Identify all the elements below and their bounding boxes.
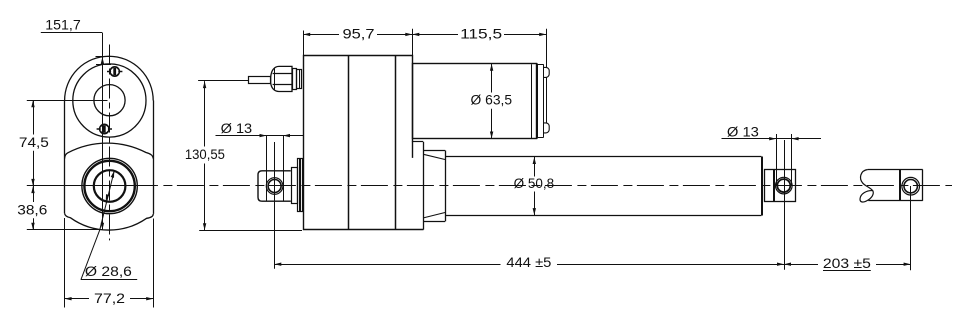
extended clevis block top edge <box>868 169 923 171</box>
svg-text:444 ±5: 444 ±5 <box>506 255 551 271</box>
rod clevis hole outer <box>776 177 793 194</box>
rear clevis hole centerline <box>274 142 276 269</box>
motor terminal bump bottom <box>544 123 550 133</box>
dim 151,7 top tick <box>96 56 113 58</box>
dim 115,5 arrow left <box>412 33 419 36</box>
dim 203 line <box>784 264 818 266</box>
motor body rectangle <box>413 64 537 139</box>
dim 203 arrow left <box>784 263 791 266</box>
dim 38,6 arrow top <box>31 186 34 193</box>
dim 74,5 line <box>33 100 35 134</box>
dim dia13 left ext2 <box>283 136 285 201</box>
end view: screw top <box>107 67 122 76</box>
housing body outline <box>304 56 424 230</box>
extended clevis right edge <box>922 170 924 201</box>
collar bottom chamfer <box>423 213 445 218</box>
housing internal line 2 <box>395 56 397 230</box>
dim 95,7 arrow right <box>405 33 412 36</box>
extended clevis divider thick line <box>899 170 901 201</box>
dim dia50,8 arrow top <box>533 157 536 164</box>
svg-text:Ø 28,6: Ø 28,6 <box>85 264 132 280</box>
dim 74,5 arrow top <box>31 100 34 107</box>
svg-text:151,7: 151,7 <box>45 18 81 34</box>
dim dia13 right ext2 <box>791 134 793 186</box>
rear clevis block <box>258 171 291 201</box>
gland nut facet top <box>273 73 292 75</box>
dim dia50,8 line <box>534 157 536 177</box>
dim 444 arrow right <box>777 263 784 266</box>
motor end cap outer line <box>546 77 548 123</box>
svg-text:Ø 63,5: Ø 63,5 <box>471 93 513 109</box>
dim dia13 left arrow2 <box>283 134 290 137</box>
motor end cap top edge <box>537 64 544 66</box>
dim 77,2 arrow left <box>65 297 72 300</box>
gland ring <box>297 70 302 89</box>
dim 74,5 arrow bottom <box>31 179 34 186</box>
dim 95,7 line <box>303 34 339 36</box>
end view: screw bottom <box>97 124 112 133</box>
svg-text:38,6: 38,6 <box>17 202 47 218</box>
rod clevis divider thick line <box>773 170 775 202</box>
motor end cap right edge <box>543 65 545 138</box>
dim 151,7 second tick <box>96 64 111 66</box>
dim 130,55 arrow top <box>203 81 206 88</box>
dim dia13 right line <box>722 138 822 140</box>
end view: vertical centerline <box>109 45 111 241</box>
rear clevis plate <box>292 168 298 204</box>
svg-text:115,5: 115,5 <box>460 26 502 42</box>
end view: hex base top edge arc <box>65 143 154 158</box>
extended clevis hole outer <box>902 177 920 195</box>
dim 203 ext right <box>910 186 912 270</box>
svg-text:Ø 50,8: Ø 50,8 <box>514 176 555 192</box>
dim 444 line <box>274 264 500 266</box>
dim 151,7 vertical line <box>102 33 104 230</box>
dim 151,7 leader horizontal <box>41 32 103 34</box>
dim dia13 right ext1 <box>776 134 778 186</box>
motor end cap bottom edge <box>537 137 544 139</box>
motor inner line <box>531 64 533 138</box>
svg-text:203 ±5: 203 ±5 <box>823 256 871 272</box>
end view: lower ring outer <box>82 158 137 213</box>
gland washer <box>293 69 297 90</box>
dim dia28,6 arrow lower <box>106 194 110 201</box>
dim dia50,8 arrow bottom <box>533 208 536 215</box>
dim 203 underline <box>823 270 871 272</box>
end view: upper circle horizontal centerline <box>27 100 108 102</box>
collar top chamfer <box>423 154 445 159</box>
dim 130,55 bottom ext <box>199 230 302 232</box>
main centerline <box>157 185 952 187</box>
collar right edge <box>445 151 447 222</box>
end view: lower ring inner thick <box>84 161 134 211</box>
dim 203 arrow right <box>904 263 911 266</box>
dim dia63,5 arrow top <box>490 64 493 71</box>
rear mounting plate <box>298 159 303 212</box>
dim 115,5 line <box>412 34 458 36</box>
motor terminal bump top <box>544 67 550 77</box>
dim shared ext line <box>412 29 414 56</box>
end view: lower bore circle <box>94 170 126 202</box>
dim 38,6 line <box>33 186 35 202</box>
dim 77,2 ext left <box>64 218 66 308</box>
dim 130,55 line <box>204 81 206 146</box>
gland ring inner line <box>299 70 301 89</box>
rear mounting plate thick line <box>299 159 301 212</box>
dim 77,2 ext right <box>153 219 155 308</box>
collar bottom edge <box>423 221 445 223</box>
outer tube bottom line <box>445 215 761 217</box>
dim dia13 right arrow1 <box>769 137 776 140</box>
svg-text:95,7: 95,7 <box>343 26 375 42</box>
gland nut left facet line <box>274 69 276 90</box>
dim 151,7 arrow bottom <box>101 223 104 230</box>
housing internal line 1 <box>348 56 350 230</box>
motor right thick edge <box>536 64 538 139</box>
end view: bottom extension line <box>27 229 100 231</box>
dim dia13 left arrow1 <box>260 134 267 137</box>
dim dia28,6 arrow upper <box>111 171 115 178</box>
rod clevis hole centerline <box>784 140 786 270</box>
extended clevis hole inner <box>904 180 917 193</box>
dim 95,7 ext left <box>303 31 305 56</box>
dim 95,7 arrow left <box>303 33 310 36</box>
cable body <box>249 77 271 84</box>
dim dia13 right arrow2 <box>792 137 799 140</box>
dim 77,2 arrow right <box>146 297 153 300</box>
dim dia28,6 leader line <box>81 171 114 280</box>
rear clevis hole inner <box>268 180 281 193</box>
dim dia28,6 underline <box>81 279 138 281</box>
dim 38,6 arrow bottom <box>31 223 34 230</box>
end view: upper center hole <box>94 85 125 116</box>
dim dia63,5 arrow bottom <box>490 132 493 139</box>
collar top edge <box>423 150 445 152</box>
svg-text:Ø 13: Ø 13 <box>221 121 253 137</box>
dim 77,2 line <box>65 298 89 300</box>
dim 151,7 arrow top <box>101 57 104 64</box>
end view: main horizontal centerline (solid part) <box>27 185 157 187</box>
collar top step <box>412 141 423 143</box>
rod break squiggle <box>861 170 873 191</box>
rear clevis hole outer <box>266 178 283 195</box>
extended clevis block bottom edge <box>868 200 922 202</box>
end view: upper boss circle <box>73 64 146 137</box>
cable line <box>198 80 248 82</box>
outer tube top line <box>445 156 761 158</box>
dim dia13 left line <box>216 135 304 137</box>
svg-text:74,5: 74,5 <box>19 135 49 151</box>
svg-text:77,2: 77,2 <box>94 291 125 307</box>
collar left edge <box>423 142 425 230</box>
dim 115,5 arrow right <box>539 33 546 36</box>
rod clevis hole inner <box>777 179 790 192</box>
svg-text:130,55: 130,55 <box>185 147 225 163</box>
dim 444 arrow left <box>274 263 281 266</box>
dim 115,5 ext right <box>546 29 548 67</box>
dim 130,55 arrow bottom <box>203 223 206 230</box>
tube end thick line <box>761 157 763 216</box>
end view: outer housing outline <box>65 56 154 100</box>
dim dia63,5 line <box>491 64 493 93</box>
rod clevis block <box>765 170 796 202</box>
gland nut outline <box>271 66 292 91</box>
gland nut facet bottom <box>273 84 292 86</box>
dim dia13 left ext1 <box>266 136 268 201</box>
